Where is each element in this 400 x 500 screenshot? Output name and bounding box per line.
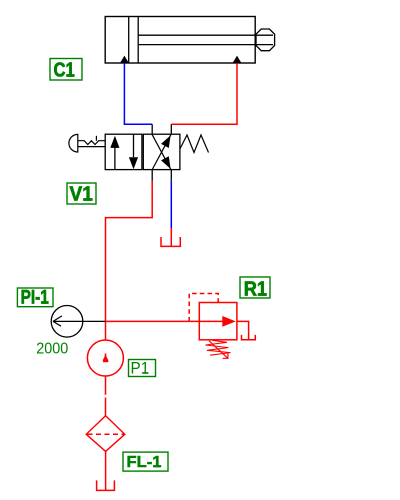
label PI-1 [17, 288, 53, 309]
wire red pump to filter lower segment [105, 398, 107, 416]
valve V1 right box crossed arrow down [152, 135, 174, 171]
cylinder C1 piston [129, 17, 139, 64]
label P1 [129, 359, 156, 378]
valve V1 left box down arrow [129, 134, 138, 169]
relief valve R1 pilot line dashed [189, 294, 218, 322]
label V1 [67, 183, 96, 206]
label C1 [50, 59, 82, 82]
wire blue cylinder left port to valve port A [124, 63, 152, 124]
svg-text:FL-1: FL-1 [127, 454, 162, 471]
label FL-1 [123, 452, 168, 471]
wire red pump to filter upper segment [105, 376, 107, 395]
filter FL-1 diamond [86, 416, 125, 452]
valve V1 pushbutton actuator [69, 134, 105, 152]
relief valve R1 flow arrow [199, 316, 236, 327]
pump P1 circle [87, 340, 123, 376]
valve V1 bottom port stub T [170, 170, 172, 181]
cylinder C1 left port arrow [120, 56, 129, 63]
svg-text:V1: V1 [70, 184, 93, 206]
cylinder C1 rod [138, 35, 273, 44]
valve V1 top port stub A [151, 124, 153, 134]
svg-text:P1: P1 [131, 359, 150, 378]
cylinder C1 rod segment through knob [256, 35, 273, 44]
svg-text:2000: 2000 [36, 341, 68, 358]
wire red filter to tank [105, 451, 107, 490]
relief valve R1 drain line [237, 321, 249, 339]
valve V1 top port stub B [170, 124, 172, 134]
tank bottom [97, 480, 115, 490]
cylinder C1 body [105, 17, 255, 64]
gauge PI-1 needle and connection line [53, 316, 106, 326]
svg-text:R1: R1 [244, 279, 267, 301]
valve V1 left position box [105, 134, 142, 169]
wire red cylinder right port to valve port B [171, 63, 237, 124]
wire red main pressure line [106, 320, 200, 322]
label R1 [240, 277, 270, 301]
valve V1 bottom port stub P [151, 170, 153, 181]
wire blue valve T down [170, 180, 172, 228]
tank under valve [161, 237, 180, 246]
filter FL-1 dashed element [88, 433, 125, 435]
gauge PI-1 circle [51, 306, 83, 338]
svg-text:PI-1: PI-1 [21, 288, 50, 309]
valve V1 return spring [180, 135, 209, 153]
wire red valve P to pump rail [106, 181, 153, 341]
pump P1 inner arrow [103, 354, 109, 363]
svg-text:C1: C1 [54, 60, 75, 82]
valve V1 right position box [143, 134, 180, 169]
relief valve R1 adjustment arrow [209, 341, 228, 359]
relief valve R1 body [199, 303, 237, 340]
wire red to tank [170, 228, 172, 246]
relief valve R1 spring [206, 340, 231, 355]
valve V1 left box up arrow [110, 136, 119, 170]
valve V1 right box crossed arrow up [152, 133, 174, 169]
cylinder C1 right port arrow [233, 56, 242, 63]
relief valve R1 drain tank [242, 335, 256, 340]
cylinder C1 rod end knob [256, 29, 275, 51]
